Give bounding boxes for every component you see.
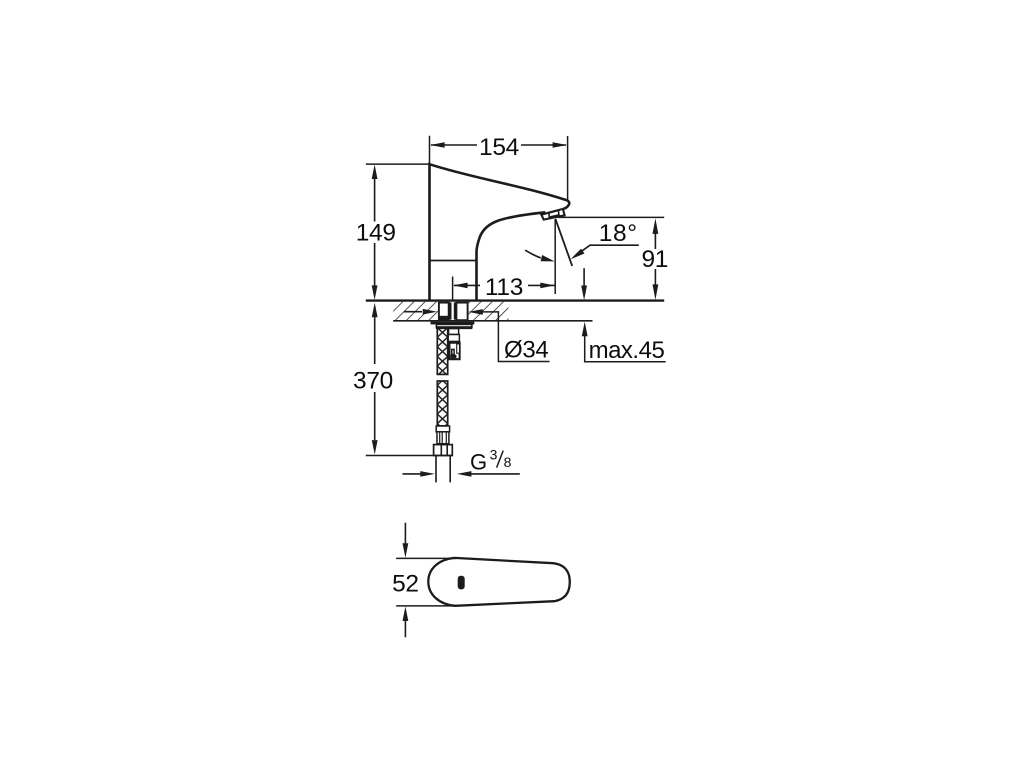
faucet body outline (side view) — [430, 164, 570, 300]
top view outline — [428, 558, 570, 606]
body/base joint line — [430, 260, 477, 262]
svg-text:Ø34: Ø34 — [504, 337, 548, 364]
dimension 149 extension line — [366, 163, 429, 165]
dimension 52 extension lines — [396, 558, 456, 606]
shank through deck — [439, 302, 468, 320]
svg-text:8: 8 — [504, 454, 512, 470]
water stream line (18 deg) — [555, 219, 572, 266]
svg-text:G: G — [470, 449, 487, 474]
label G 3/8 — [403, 447, 520, 477]
dimension 91 extension line — [558, 216, 664, 218]
dimension 370 bottom extension line — [366, 455, 452, 457]
braided flex hose upper segment — [437, 328, 447, 375]
label diameter 34 with leader — [404, 309, 550, 364]
svg-text:370: 370 — [353, 368, 393, 395]
sensor window (top view) — [458, 576, 465, 590]
svg-text:113: 113 — [485, 274, 523, 301]
hose end ferrule — [436, 426, 449, 432]
dimension 113 — [453, 274, 555, 301]
deck bottom line / max45 extension — [393, 320, 592, 322]
outlet pipe G3/8 — [436, 456, 450, 483]
svg-text:52: 52 — [392, 571, 419, 598]
dimension 91 — [641, 218, 668, 300]
stream down arrow to basin — [583, 268, 585, 287]
mounting flange below deck — [431, 322, 475, 325]
dimension 370 — [353, 303, 393, 455]
dimension 52 — [392, 523, 419, 638]
svg-text:max.45: max.45 — [589, 337, 665, 364]
deck hatched section left of hole — [393, 302, 438, 321]
svg-text:149: 149 — [356, 220, 396, 247]
label max.45 with leader — [582, 322, 666, 364]
label 18deg with leader — [571, 220, 639, 259]
connection nut — [434, 445, 453, 456]
deck (counter) top line — [366, 299, 664, 301]
knurled section — [437, 432, 449, 444]
sensor range arc arrow — [525, 250, 541, 258]
svg-text:18°: 18° — [599, 220, 638, 247]
sensor cable plug — [448, 329, 459, 360]
svg-text:154: 154 — [479, 134, 519, 161]
braided flex hose lower segment — [437, 381, 447, 426]
deck hatched section right of hole — [468, 302, 508, 321]
svg-text:91: 91 — [641, 246, 668, 273]
dimension 149 — [356, 165, 396, 300]
dimension 154 extension lines — [430, 136, 568, 200]
dimension 154 — [430, 134, 567, 161]
dimension 113 extension lines — [453, 219, 556, 300]
aerator (mousseur) under spout — [541, 209, 564, 220]
svg-text:3: 3 — [490, 447, 498, 463]
